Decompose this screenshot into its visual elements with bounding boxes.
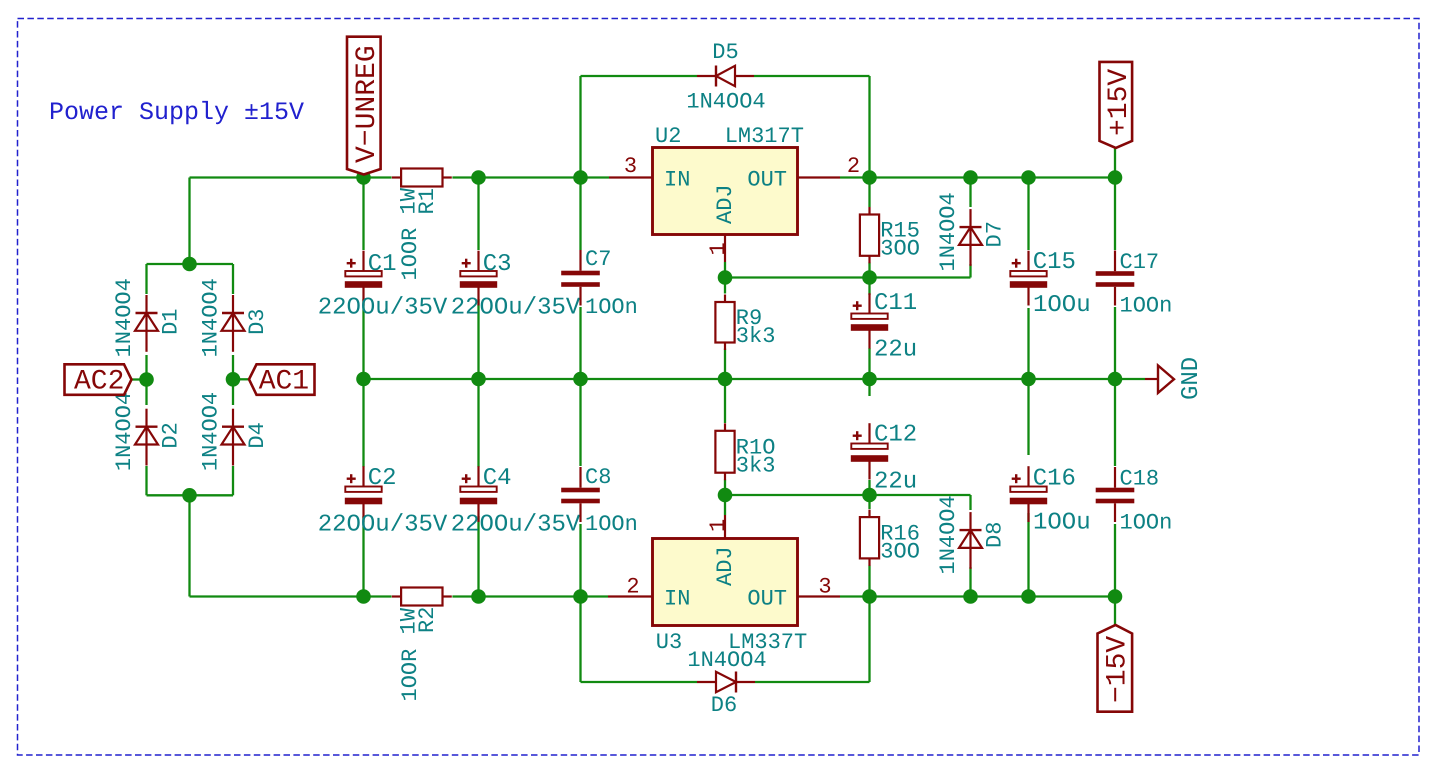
svg-text:22u: 22u (874, 469, 917, 496)
svg-text:LM337T: LM337T (728, 630, 807, 655)
wire (190, 176, 392, 178)
junction (356, 170, 371, 185)
junction (1021, 589, 1036, 604)
wire C7 bottom (579, 307, 581, 379)
resistor R1 (392, 169, 452, 281)
diode D6 (687, 648, 766, 718)
regulator U2 LM317T (609, 124, 860, 262)
svg-text:AC1: AC1 (259, 366, 309, 397)
resistor R2 (392, 588, 452, 702)
wire C16 top (1027, 379, 1029, 455)
junction (471, 372, 486, 387)
svg-text:C8: C8 (585, 465, 611, 490)
resistor R10 (715, 423, 775, 480)
svg-text:C18: C18 (1120, 467, 1160, 492)
junction (963, 589, 978, 604)
capacitor C4 (451, 465, 581, 539)
svg-text:2: 2 (847, 154, 860, 179)
svg-text:1OOR: 1OOR (398, 228, 423, 281)
junction (471, 170, 486, 185)
wire bridge bottom (147, 494, 234, 496)
svg-text:3k3: 3k3 (736, 453, 776, 478)
wire C3 top (477, 178, 479, 251)
junction (1021, 170, 1036, 185)
wire C4 bottom (477, 516, 479, 597)
polarity plus (462, 262, 471, 264)
junction (1108, 372, 1123, 387)
svg-text:U2: U2 (655, 124, 681, 149)
wire D7 top leg (969, 178, 971, 208)
wire GND rail (364, 378, 1146, 380)
svg-text:IN: IN (664, 168, 690, 193)
svg-text:+15V: +15V (1104, 69, 1135, 136)
svg-text:1OOn: 1OOn (1120, 511, 1173, 536)
junction (471, 589, 486, 604)
wire D5 row left (581, 75, 698, 77)
wire R10 bottom (724, 480, 726, 496)
global label AC1 (249, 364, 315, 397)
svg-text:22OOu/35V: 22OOu/35V (451, 295, 581, 322)
wire R9 bottom (724, 349, 726, 380)
capacitor C1 (318, 251, 448, 322)
wire C7 top (579, 178, 581, 251)
polarity plus (347, 478, 356, 480)
junction (862, 372, 877, 387)
diode D7 (936, 192, 1008, 271)
junction (139, 372, 154, 387)
svg-text:1N4OO4: 1N4OO4 (199, 278, 224, 357)
wire R15 bottom (868, 263, 870, 278)
wire D8 bottom leg (969, 567, 971, 597)
wire C12 bottom (868, 480, 870, 495)
wire R16 top (868, 495, 870, 509)
wire D5 right leg (868, 76, 870, 178)
power flag -15V (1098, 625, 1134, 712)
junction (963, 170, 978, 185)
capacitor C16 (1010, 466, 1091, 537)
wire (452, 176, 609, 178)
wire C8 top (579, 379, 581, 466)
wire R9 top (724, 278, 726, 294)
wire AC2 stub (132, 378, 147, 380)
svg-text:D6: D6 (711, 693, 737, 718)
svg-text:AC2: AC2 (74, 366, 124, 397)
wire bridge bottom to bottom rail (188, 495, 190, 596)
diode D8 (936, 495, 1008, 574)
wire D6 row left (581, 681, 698, 683)
diode D1 (112, 278, 184, 357)
wire C2 bottom (362, 516, 364, 597)
svg-text:V−UNREG: V−UNREG (352, 45, 383, 163)
wire C17 bottom (1114, 307, 1116, 379)
wire bridge top (147, 263, 234, 265)
polarity plus (853, 305, 862, 307)
wire (145, 466, 147, 495)
wire U2 ADJ (724, 262, 726, 278)
wire C11 top (868, 278, 870, 296)
wire C12 top (868, 379, 870, 396)
wire D5 left leg (579, 76, 581, 178)
wire (232, 264, 234, 294)
svg-text:1N4OO4: 1N4OO4 (112, 278, 137, 357)
wire (145, 264, 147, 294)
svg-text:3OO: 3OO (880, 237, 920, 262)
junction (862, 589, 877, 604)
wire C4 top (477, 379, 479, 467)
svg-text:C1: C1 (368, 251, 397, 278)
svg-text:GND: GND (1178, 357, 1205, 400)
svg-text:3k3: 3k3 (736, 324, 776, 349)
capacitor C11 (851, 290, 917, 364)
wire C3 bottom (477, 299, 479, 379)
capacitor C8 (561, 465, 638, 537)
wire C15 top (1027, 178, 1029, 251)
junction (718, 372, 733, 387)
wire (840, 176, 1115, 178)
junction (1108, 170, 1123, 185)
svg-text:C3: C3 (483, 251, 512, 278)
capacitor C15 (1010, 249, 1091, 319)
svg-text:1OOu: 1OOu (1033, 292, 1091, 319)
capacitor C3 (451, 251, 581, 322)
wire R10 top (724, 379, 726, 423)
svg-text:IN: IN (664, 587, 690, 612)
junction (862, 488, 877, 503)
junction (182, 257, 197, 272)
svg-text:Power Supply ±15V: Power Supply ±15V (49, 98, 304, 127)
resistor R16 (860, 510, 920, 566)
svg-text:ADJ: ADJ (713, 546, 738, 586)
wire C2 top (362, 379, 364, 467)
svg-text:D2: D2 (159, 422, 184, 448)
svg-text:C7: C7 (585, 247, 611, 272)
junction (573, 170, 588, 185)
svg-text:R2: R2 (415, 607, 440, 633)
power flag V-UNREG (347, 37, 383, 175)
wire C15 bottom (1027, 308, 1029, 379)
polarity plus (1012, 478, 1021, 480)
capacitor C18 (1096, 467, 1173, 536)
wire -15V stub (1114, 597, 1116, 626)
svg-text:C12: C12 (874, 422, 917, 449)
polarity plus (853, 435, 862, 437)
svg-text:1: 1 (706, 519, 731, 532)
junction (356, 589, 371, 604)
wire D5 row right (754, 75, 870, 77)
diode D4 (199, 392, 271, 471)
svg-text:3: 3 (624, 154, 637, 179)
polarity plus (1012, 262, 1021, 264)
diode D5 (686, 40, 765, 115)
capacitor C17 (1096, 250, 1173, 318)
junction (356, 372, 371, 387)
svg-text:22u: 22u (874, 337, 917, 364)
wire C11 bottom (868, 348, 870, 379)
power flag +15V (1100, 62, 1136, 148)
svg-text:1OOn: 1OOn (585, 512, 638, 537)
wire (232, 355, 234, 405)
svg-text:U3: U3 (656, 630, 682, 655)
wire (145, 355, 147, 405)
svg-text:C2: C2 (368, 465, 397, 492)
junction (862, 270, 877, 285)
svg-text:1OOR: 1OOR (398, 649, 423, 702)
wire C18 bottom (1114, 524, 1116, 597)
svg-text:R1: R1 (415, 188, 440, 214)
svg-text:3: 3 (818, 575, 831, 600)
junction (573, 372, 588, 387)
wire AC1 stub (233, 378, 249, 380)
junction (1108, 589, 1123, 604)
junction (226, 372, 241, 387)
svg-text:1N4OO4: 1N4OO4 (936, 192, 961, 271)
svg-text:LM317T: LM317T (725, 124, 804, 149)
wire D6 row right (755, 681, 870, 683)
svg-text:22OOu/35V: 22OOu/35V (318, 295, 448, 322)
wire +15V stub (1114, 149, 1116, 178)
capacitor C2 (318, 465, 448, 539)
wire D6 left leg (579, 597, 581, 683)
wire C1 bottom (362, 299, 364, 379)
regulator U3 LM337T (608, 515, 840, 655)
diode D3 (199, 278, 271, 357)
resistor R9 (715, 295, 775, 351)
wire C17 top (1114, 178, 1116, 251)
svg-text:D8: D8 (983, 522, 1008, 548)
svg-text:OUT: OUT (747, 168, 787, 193)
wire (232, 466, 234, 495)
ground GND arrow (1145, 357, 1205, 400)
wire C16 bottom (1027, 513, 1029, 597)
capacitor C7 (561, 247, 638, 320)
svg-text:D4: D4 (245, 422, 270, 448)
wire ADJ- row (725, 494, 870, 496)
svg-text:2: 2 (626, 575, 639, 600)
polarity plus (347, 262, 356, 264)
svg-text:C4: C4 (483, 465, 512, 492)
svg-text:1OOn: 1OOn (1120, 293, 1173, 318)
wire C1 top (362, 178, 364, 251)
wire D7 bottom leg (969, 264, 971, 278)
wire R16 bottom (868, 566, 870, 597)
svg-text:3OO: 3OO (880, 539, 920, 564)
junction (182, 488, 197, 503)
svg-text:C15: C15 (1033, 249, 1076, 276)
junction (718, 488, 733, 503)
wire (840, 595, 1115, 597)
wire C18 top (1114, 379, 1116, 466)
svg-text:1OOn: 1OOn (585, 295, 638, 320)
svg-text:D1: D1 (159, 308, 184, 334)
junction (862, 170, 877, 185)
wire C8 bottom (579, 524, 581, 597)
svg-text:OUT: OUT (747, 587, 787, 612)
wire ADJ+ row (725, 276, 870, 278)
svg-text:C16: C16 (1033, 466, 1076, 493)
svg-text:22OOu/35V: 22OOu/35V (451, 512, 581, 539)
diode D2 (112, 392, 184, 471)
junction (573, 589, 588, 604)
wire (190, 595, 392, 597)
svg-text:ADJ: ADJ (713, 184, 738, 224)
global label AC2 (65, 364, 132, 397)
svg-text:D7: D7 (983, 221, 1008, 247)
svg-text:1N4OO4: 1N4OO4 (199, 392, 224, 471)
svg-text:C11: C11 (874, 290, 917, 317)
svg-text:1N4OO4: 1N4OO4 (936, 495, 961, 574)
svg-text:D5: D5 (712, 40, 738, 65)
wire (452, 595, 608, 597)
wire R15 top (868, 178, 870, 208)
svg-text:1N4OO4: 1N4OO4 (112, 392, 137, 471)
junction (1021, 372, 1036, 387)
wire D8 top leg (969, 495, 971, 510)
svg-text:1OOu: 1OOu (1033, 510, 1091, 537)
wire ADJ+ row to D7 (870, 276, 971, 278)
svg-text:1N4OO4: 1N4OO4 (686, 90, 765, 115)
svg-text:D3: D3 (245, 308, 270, 334)
svg-text:−15V: −15V (1103, 636, 1134, 703)
capacitor C12 (851, 422, 917, 496)
svg-text:22OOu/35V: 22OOu/35V (318, 512, 448, 539)
wire (188, 178, 190, 265)
junction (718, 270, 733, 285)
wire U3 ADJ (724, 495, 726, 515)
polarity plus (462, 478, 471, 480)
wire ADJ- row to D8 (870, 494, 971, 496)
svg-text:1: 1 (706, 242, 731, 255)
svg-text:C17: C17 (1120, 250, 1160, 275)
wire D6 right leg (868, 597, 870, 683)
resistor R15 (860, 207, 920, 263)
